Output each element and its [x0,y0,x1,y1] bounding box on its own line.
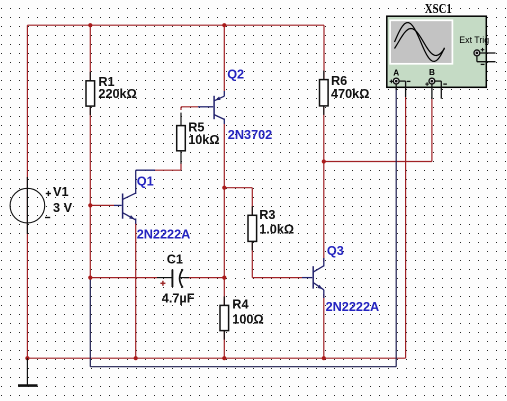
svg-text:2N2222A: 2N2222A [326,300,380,314]
svg-text:2N2222A: 2N2222A [137,227,191,241]
svg-text:B: B [429,68,435,77]
svg-text:Q3: Q3 [327,244,344,258]
svg-text:10kΩ: 10kΩ [188,133,219,147]
svg-text:R4: R4 [232,298,248,312]
svg-text:470kΩ: 470kΩ [331,87,369,101]
svg-text:3 V: 3 V [53,201,73,215]
svg-text:C1: C1 [167,252,183,266]
svg-text:1.0kΩ: 1.0kΩ [259,223,294,237]
svg-text:2N3702: 2N3702 [228,128,272,142]
svg-text:A: A [393,69,399,78]
svg-text:Q2: Q2 [227,67,244,81]
svg-text:100Ω: 100Ω [232,312,263,326]
svg-text:R3: R3 [259,208,275,222]
svg-text:4.7µF: 4.7µF [162,292,195,306]
svg-text:220kΩ: 220kΩ [98,87,136,101]
svg-text:V1: V1 [53,185,69,199]
svg-text:Ext Trig: Ext Trig [459,35,489,45]
svg-text:XSC1: XSC1 [425,1,452,16]
svg-text:R6: R6 [331,74,347,88]
svg-text:Q1: Q1 [137,174,154,188]
